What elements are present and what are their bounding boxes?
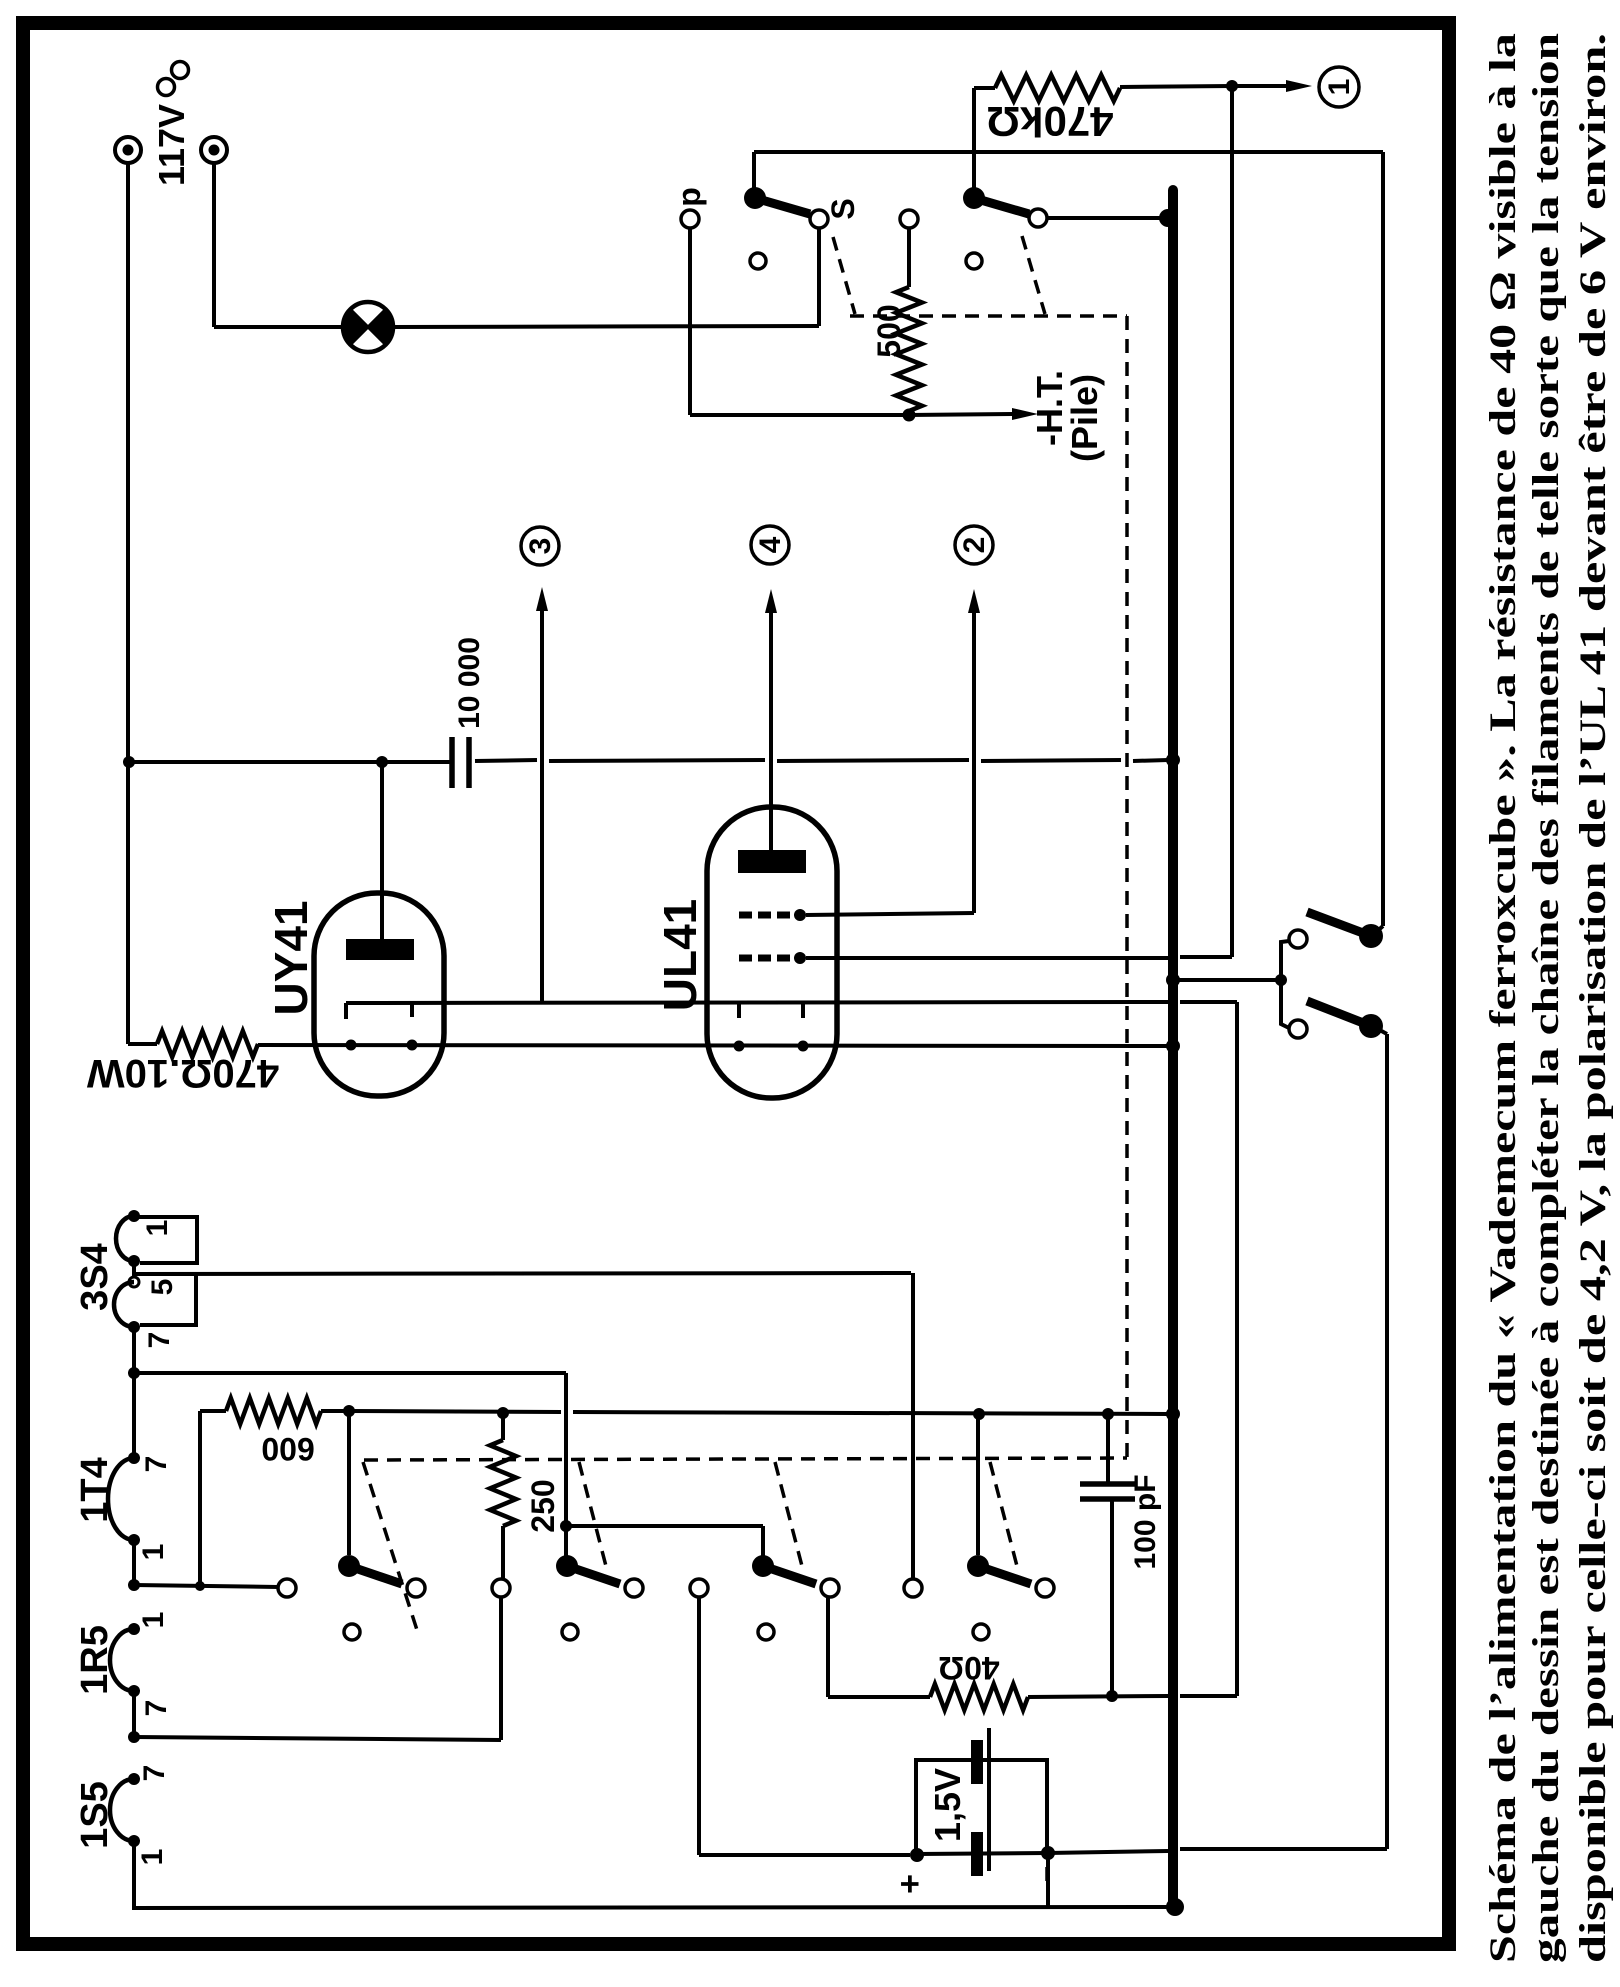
svg-text:1T4: 1T4 [74, 1457, 116, 1522]
svg-text:4: 4 [754, 536, 787, 553]
svg-text:7: 7 [143, 1332, 176, 1349]
svg-text:UY41: UY41 [265, 900, 317, 1015]
svg-text:S: S [825, 198, 861, 219]
svg-text:1: 1 [136, 1849, 169, 1866]
svg-text:500: 500 [871, 304, 907, 357]
svg-text:gauche du dessin est destinée: gauche du dessin est destinée à compléte… [1526, 32, 1567, 1963]
svg-text:7: 7 [140, 1456, 173, 1473]
svg-text:1: 1 [137, 1612, 170, 1629]
svg-text:1,5V: 1,5V [927, 1768, 968, 1842]
svg-text:1R5: 1R5 [74, 1625, 116, 1695]
svg-text:3: 3 [524, 538, 557, 555]
svg-text:600: 600 [261, 1431, 314, 1467]
svg-text:1: 1 [1323, 79, 1356, 96]
svg-text:2: 2 [958, 537, 991, 554]
svg-text:100 pF: 100 pF [1129, 1474, 1162, 1569]
svg-text:+: + [891, 1874, 929, 1894]
svg-text:UL41: UL41 [654, 899, 706, 1011]
svg-text:5: 5 [146, 1279, 179, 1296]
svg-text:470Ω.10W: 470Ω.10W [87, 1051, 279, 1095]
svg-text:Schéma de l’alimentation du «: Schéma de l’alimentation du « Vademecum … [1483, 33, 1524, 1963]
svg-text:3S4: 3S4 [74, 1243, 116, 1311]
svg-text:1: 1 [141, 1220, 174, 1237]
svg-text:7: 7 [140, 1700, 173, 1717]
svg-text:250: 250 [525, 1479, 561, 1532]
svg-text:40Ω: 40Ω [938, 1650, 999, 1686]
svg-text:10 000: 10 000 [453, 637, 486, 729]
svg-text:470kΩ: 470kΩ [986, 98, 1113, 145]
svg-text:disponible pour celle-ci soit: disponible pour celle-ci soit de 4,2 V, … [1573, 33, 1614, 1963]
svg-text:117V: 117V [151, 104, 192, 186]
svg-text:1S5: 1S5 [74, 1781, 116, 1849]
svg-text:(Pile): (Pile) [1064, 374, 1105, 462]
svg-text:p: p [671, 187, 707, 207]
svg-text:7: 7 [138, 1765, 171, 1782]
svg-text:1: 1 [137, 1544, 170, 1561]
